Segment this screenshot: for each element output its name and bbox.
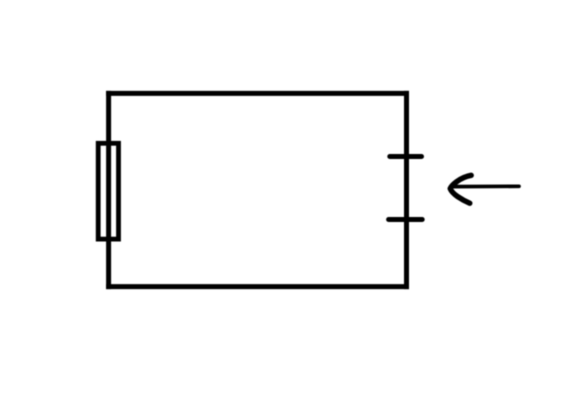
wire right: [404, 91, 409, 289]
capacitor C1 top plate (tick across right wire): [390, 154, 422, 159]
resistor R1 (box symbol on left wire): [98, 143, 118, 239]
wire bottom: [106, 284, 409, 289]
wire left: [106, 91, 111, 289]
wire top: [106, 91, 409, 96]
input arrow shaft: [453, 184, 519, 188]
input arrow head: [450, 175, 471, 203]
capacitor C1 bottom plate (tick across right wire): [389, 217, 423, 222]
